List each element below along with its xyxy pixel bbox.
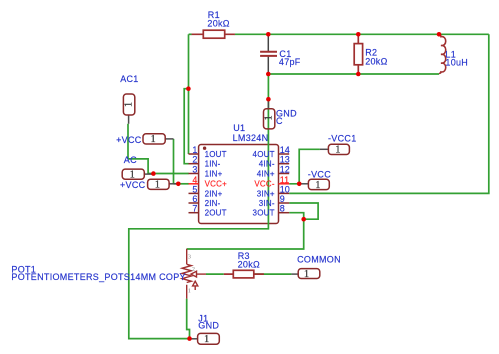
- wire AC1 down: [127, 124, 129, 159]
- svg-text:1: 1: [124, 102, 135, 107]
- svg-text:3: 3: [188, 253, 191, 260]
- svg-text:-VCC: -VCC: [308, 169, 331, 179]
- pin numbers right: [280, 145, 290, 214]
- svg-text:AC1: AC1: [120, 74, 138, 84]
- svg-text:VCC+: VCC+: [205, 180, 227, 189]
- node C1 bottom: [266, 72, 271, 77]
- svg-text:3: 3: [192, 165, 197, 175]
- svg-text:COMMON: COMMON: [297, 254, 341, 264]
- svg-text:U1: U1: [233, 123, 245, 133]
- port -VCC: [299, 179, 329, 191]
- svg-text:1OUT: 1OUT: [205, 150, 227, 159]
- wire C1 net vertical through IC: [129, 74, 269, 339]
- svg-text:12: 12: [280, 165, 290, 175]
- pin numbers left: [192, 145, 197, 214]
- resistor R1: [192, 30, 235, 38]
- svg-text:+VCC: +VCC: [116, 135, 142, 145]
- svg-text:1: 1: [192, 145, 197, 155]
- port +VCC top: [143, 134, 174, 145]
- inductor L1: [439, 35, 446, 74]
- wire branch to pin2: [184, 89, 189, 164]
- wire top rail from R1 to right corner: [189, 33, 489, 35]
- wire left vertical R1 to pin1: [188, 34, 190, 154]
- node J1 junction: [187, 336, 192, 341]
- wire pin9 loop: [289, 203, 318, 219]
- svg-text:C: C: [276, 116, 283, 126]
- svg-text:4OUT: 4OUT: [253, 150, 275, 159]
- svg-text:6: 6: [192, 194, 197, 204]
- wire R3 to COMMON: [254, 273, 292, 275]
- svg-text:2OUT: 2OUT: [205, 209, 227, 218]
- svg-text:4IN-: 4IN-: [259, 160, 275, 169]
- wire pin4 junction: [174, 183, 189, 185]
- wire pin8 down to pot top: [187, 213, 304, 249]
- node GND C tap: [266, 97, 271, 102]
- svg-text:2: 2: [192, 266, 195, 273]
- wire right vertical L1 to pin10: [289, 34, 489, 193]
- resistor R2: [354, 34, 362, 74]
- wire pot pin1 to J1: [187, 299, 190, 339]
- svg-text:VCC-: VCC-: [254, 180, 274, 189]
- IC pin stubs right: [279, 154, 290, 213]
- node C1 top: [266, 32, 271, 37]
- op-amp U1 body: [199, 145, 279, 224]
- svg-text:1: 1: [335, 145, 340, 156]
- IC pin stubs left: [189, 154, 199, 213]
- node L1 top: [437, 32, 442, 37]
- potentiometer POT1: [182, 249, 206, 299]
- svg-text:10uH: 10uH: [445, 58, 468, 68]
- svg-text:20kΩ: 20kΩ: [365, 57, 387, 67]
- svg-text:1: 1: [264, 115, 275, 120]
- node R2 bottom: [356, 72, 361, 77]
- svg-text:1IN-: 1IN-: [205, 160, 221, 169]
- port J1 GND: [190, 333, 220, 345]
- port AC: [122, 169, 153, 180]
- node pin8 junction: [301, 217, 306, 222]
- node pin11 junction: [297, 182, 302, 187]
- svg-text:3IN-: 3IN-: [259, 199, 275, 208]
- pin names left: [205, 150, 227, 218]
- svg-text:2: 2: [192, 155, 197, 165]
- wire bottom rail C1-R2-L1: [268, 73, 439, 75]
- svg-text:10: 10: [280, 184, 290, 194]
- IC pin1 mark: [203, 147, 206, 150]
- node R2 top: [356, 32, 361, 37]
- svg-text:14: 14: [280, 145, 290, 155]
- svg-text:9: 9: [280, 194, 285, 204]
- svg-text:1: 1: [204, 334, 209, 345]
- svg-text:2IN+: 2IN+: [205, 189, 223, 198]
- svg-text:-VCC1: -VCC1: [328, 134, 357, 144]
- node R1 branch: [186, 86, 191, 91]
- svg-text:1: 1: [188, 287, 191, 294]
- svg-text:+VCC: +VCC: [120, 180, 146, 190]
- svg-text:4IN+: 4IN+: [257, 169, 275, 178]
- svg-text:1: 1: [155, 180, 160, 191]
- svg-text:POTENTIOMETERS_POTS14MM COPY: POTENTIOMETERS_POTS14MM COPY: [11, 272, 185, 282]
- node AC port tap: [151, 171, 156, 176]
- svg-text:1: 1: [151, 134, 156, 145]
- svg-text:GND: GND: [198, 321, 219, 331]
- svg-text:8: 8: [280, 204, 285, 214]
- svg-text:20kΩ: 20kΩ: [238, 259, 260, 269]
- wire +VCC top down to pin4 junction: [173, 139, 175, 184]
- connector AC1: [123, 94, 134, 124]
- svg-text:47pF: 47pF: [279, 57, 301, 67]
- svg-text:1: 1: [130, 170, 135, 181]
- wire -VCC1 to pin11 junction: [289, 149, 320, 184]
- port COMMON: [291, 269, 319, 280]
- svg-text:1IN+: 1IN+: [205, 169, 223, 178]
- svg-text:3OUT: 3OUT: [253, 209, 275, 218]
- svg-text:AC: AC: [124, 155, 137, 165]
- svg-text:4: 4: [192, 175, 197, 185]
- port +VCC lower: [148, 179, 178, 190]
- wire pot wiper to R3: [206, 273, 224, 275]
- resistor R3: [224, 270, 264, 278]
- svg-text:1: 1: [315, 180, 320, 191]
- svg-text:2IN-: 2IN-: [205, 199, 221, 208]
- port -VCC1: [320, 144, 350, 155]
- svg-text:20kΩ: 20kΩ: [207, 19, 229, 29]
- svg-text:13: 13: [280, 155, 290, 165]
- wire AC net to pin3: [128, 159, 189, 174]
- capacitor C1: [260, 36, 277, 72]
- svg-text:5: 5: [192, 184, 197, 194]
- pin names right: [253, 150, 275, 218]
- svg-text:11: 11: [280, 175, 289, 185]
- svg-text:7: 7: [192, 204, 197, 214]
- port GND C: [264, 101, 275, 129]
- node pin4 junction: [176, 182, 181, 187]
- svg-text:3IN+: 3IN+: [257, 189, 275, 198]
- svg-text:LM324N: LM324N: [233, 133, 269, 143]
- svg-text:1: 1: [304, 269, 309, 280]
